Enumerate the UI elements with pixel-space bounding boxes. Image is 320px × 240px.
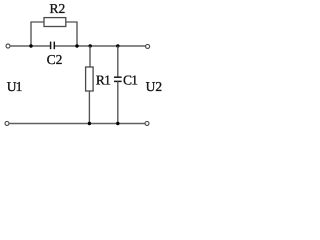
wire: R1 top lead [89,46,91,67]
svg-text:U1: U1 [7,79,22,94]
wire: C1 top lead [117,46,119,77]
resistor R1 (box) [86,67,94,91]
capacitor C1 top plate [114,76,122,78]
wire: R2 branch left riser and top lead [31,22,44,46]
svg-text:C2: C2 [47,52,63,67]
capacitor C1 bottom plate [114,80,122,82]
wire: R1 bottom lead [88,91,90,124]
terminal bottom-left (input -) [5,121,9,125]
wire: R2 branch right lead and riser [66,22,77,46]
terminal bottom-right (output -) [145,121,149,125]
wire: C1 bottom lead [117,81,119,123]
node: junction R1 bottom on bottom rail [88,122,91,125]
svg-text:R1: R1 [96,72,110,87]
wire: top rail left segment (terminal to C2 left plate) [10,45,50,47]
node: junction R1 top on top rail [89,44,92,47]
node: junction C1 bottom on bottom rail [116,122,119,125]
node: junction R2-branch left on top rail [29,44,32,47]
node: junction R2-branch right on top rail [75,44,78,47]
wire: bottom rail [9,123,145,125]
capacitor C2 (series, plates) [50,42,52,50]
node: junction C1 top on top rail [116,44,119,47]
svg-text:C1: C1 [123,72,137,87]
wire: top rail right segment (C2 right plate to right terminal) [55,45,146,47]
terminal top-right (output +) [146,44,150,48]
svg-text:R2: R2 [50,1,66,16]
resistor R2 (box) [44,18,66,27]
terminal top-left (input +) [6,44,10,48]
svg-text:U2: U2 [146,79,163,94]
